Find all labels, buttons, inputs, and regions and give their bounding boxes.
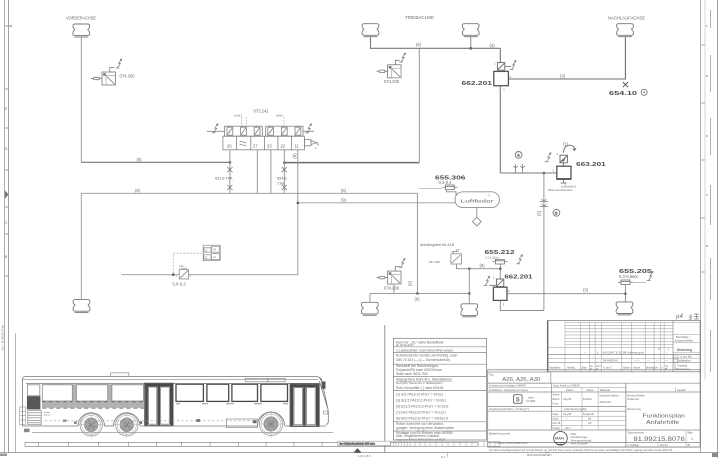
solenoid squares in block <box>227 126 301 136</box>
svg-text:Fert.M.: Fert.M. <box>553 421 561 425</box>
svg-text:074.200: 074.200 <box>384 79 400 84</box>
svg-text:Werk München: Werk München <box>571 442 589 446</box>
svg-text:S: S <box>516 397 520 403</box>
svg-text:TPA: TPA <box>278 182 286 186</box>
underbody small dark parts <box>196 419 200 422</box>
svg-text:/: / <box>666 351 667 355</box>
main title text <box>643 413 685 426</box>
svg-text:ab 02.02.2027: ab 02.02.2027 <box>396 343 414 347</box>
svg-text:NACHLAUFACHSE: NACHLAUFACHSE <box>608 16 645 21</box>
svg-text:3: 3 <box>503 303 505 307</box>
svg-text:Norm: Norm <box>553 417 559 421</box>
svg-text:vorn: vorn <box>179 265 184 268</box>
svg-text:Aug.95: Aug.95 <box>563 412 572 416</box>
svg-text:Bestätig: Bestätig <box>646 367 656 370</box>
mirror <box>322 381 326 388</box>
restrictor ticks on (5) vertical <box>540 199 549 206</box>
svg-text:C: C <box>5 221 8 225</box>
svg-text:Maßstab: Maßstab <box>600 388 611 392</box>
svg-text:04.02047 E 20.09 Aufbess.geb.: 04.02047 E 20.09 Aufbess.geb. <box>603 350 645 354</box>
svg-text:Datum: Datum <box>623 367 630 370</box>
svg-text:(8)16x2 PA11/12-PHLY = St16: (8)16x2 PA11/12-PHLY = St16x1,5 <box>396 416 448 420</box>
wire port3 bottom valve to (5) <box>500 300 544 310</box>
spandrel bottom dashed edge <box>42 407 144 409</box>
pressure switch 074.200 middle bottom <box>377 267 402 285</box>
body bottom edge <box>22 425 78 427</box>
test point X pair port26 <box>227 167 232 190</box>
svg-text:Ventil II: Ventil II <box>234 115 243 118</box>
svg-text:1: 1 <box>557 152 559 156</box>
Luftfeder bubble <box>455 192 499 226</box>
svg-text:MAN-PROPRIETARY: MAN-PROPRIETARY <box>527 453 552 457</box>
underbody luggage box <box>226 419 257 427</box>
svg-text:(6): (6) <box>415 297 421 302</box>
svg-text:~: ~ <box>584 350 586 354</box>
svg-text:0,3-0,4: 0,3-0,4 <box>439 180 453 185</box>
wheel arches <box>78 413 105 426</box>
windshield slope <box>319 381 327 408</box>
wire 655.212 tap <box>499 264 501 269</box>
left fold arrow mark <box>5 190 9 199</box>
svg-text:Anfahrhilfe: Anfahrhilfe <box>646 420 679 426</box>
Typ cell <box>488 372 551 383</box>
solenoid valve 662.201 bottom <box>483 276 507 300</box>
svg-text:d. aus Stk.: d. aus Stk. <box>680 355 693 359</box>
front wheel <box>258 411 285 438</box>
svg-text:04.84534 0: 04.84534 0 <box>603 358 618 362</box>
bellows NACHLAUFACHSE top <box>617 24 634 37</box>
svg-text:1: 1 <box>691 437 693 441</box>
svg-text:26: 26 <box>227 144 232 149</box>
svg-text:C: C <box>706 193 709 197</box>
svg-text:Ad: Ad <box>588 417 592 421</box>
svg-text:22: 22 <box>281 144 286 149</box>
svg-text:Namen/a.Stellen: Namen/a.Stellen <box>600 394 620 398</box>
mm ruler fine ticks <box>390 442 500 447</box>
circled dot near 654.10 <box>641 89 647 95</box>
svg-text:E: E <box>706 74 708 78</box>
svg-text:651.8 TPA: 651.8 TPA <box>215 177 233 181</box>
svg-text:/: / <box>668 347 669 351</box>
bellows TRIEBACHSE right bottom <box>461 304 478 317</box>
svg-text:Gepr: Gepr <box>553 412 559 416</box>
svg-text:(1): (1) <box>563 142 569 147</box>
revision table column lines <box>564 321 566 372</box>
svg-text:(6): (6) <box>341 188 347 193</box>
svg-text:Aug.95: Aug.95 <box>563 397 572 401</box>
svg-text:Fortsetzung Unterlage s.VB4/50: Fortsetzung Unterlage s.VB4/50 <box>489 384 526 388</box>
revision header row <box>549 365 669 371</box>
right windows <box>176 384 288 401</box>
svg-text:3: 3 <box>555 211 558 216</box>
svg-text:F: F <box>706 24 708 28</box>
svg-text:MAN: MAN <box>555 436 564 440</box>
wire left bellows riser bottom <box>369 293 371 302</box>
MAN company text <box>571 432 592 446</box>
svg-text:Ventil I: Ventil I <box>276 115 284 118</box>
valve block 073.241 <box>223 126 305 150</box>
roof second line <box>23 379 318 381</box>
svg-text:D: D <box>5 147 8 151</box>
junction TRIEB <box>470 47 472 49</box>
svg-text:Bl.: Bl. <box>688 443 691 447</box>
revision right block cells <box>673 335 700 370</box>
svg-text:21: 21 <box>213 256 216 259</box>
svg-text:(5): (5) <box>537 210 542 216</box>
ground line <box>32 431 333 433</box>
left border trim line <box>4 0 6 453</box>
wire 662.201 port3 down <box>499 86 501 173</box>
bellows TRIEBACHSE left bottom <box>361 302 378 315</box>
svg-text:C-Auflage: C-Auflage <box>628 443 640 447</box>
valve block 073.241 port drops <box>230 150 298 203</box>
svg-text:Prom: Prom <box>553 402 559 406</box>
svg-text:E: E <box>5 107 8 111</box>
right zone tick marks <box>701 45 705 272</box>
restrictor 0,0-0,3 <box>179 268 188 279</box>
svg-text:3: 3 <box>597 350 599 354</box>
wire (6) down to front bellows <box>80 193 82 299</box>
bottom row <box>628 443 691 447</box>
wire into 662.201 top <box>499 48 501 62</box>
svg-text:Entfallgebot: Entfallgebot <box>677 358 691 362</box>
svg-text:(8): (8) <box>137 157 143 162</box>
svg-text:Datum: Datum <box>566 388 574 392</box>
left windows <box>42 385 143 401</box>
restrictor ticks on mid wire <box>513 164 525 173</box>
pressure switch 074.200 front <box>91 68 116 86</box>
svg-text:µ4: µ4 <box>676 314 683 320</box>
svg-text:AP: AP <box>588 421 592 425</box>
block right feed stub + zigzag <box>303 130 314 132</box>
window band top rail <box>26 383 319 385</box>
wire mid horizontal to 663.201 <box>500 172 557 174</box>
rear engine grille <box>28 410 41 424</box>
dashed link to connector block <box>173 253 203 273</box>
rear upper window <box>28 385 40 396</box>
svg-text:067.300: 067.300 <box>429 260 440 264</box>
svg-text:Festig.: Festig. <box>553 426 561 430</box>
svg-text:(6): (6) <box>416 42 422 47</box>
svg-text:663.201: 663.201 <box>576 162 606 168</box>
svg-text:(3): (3) <box>583 288 589 293</box>
svg-text:Tag/Name: Tag/Name <box>549 367 561 370</box>
personnel rows <box>489 393 646 436</box>
revision table row lines <box>565 321 700 323</box>
svg-text:0,0-0,3: 0,0-0,3 <box>173 282 187 287</box>
wire (8) lower horizontal Anhaltegeber <box>457 264 501 269</box>
circled 4 <box>515 152 522 159</box>
wire 074.200 bottom drop <box>393 284 395 293</box>
svg-text:1.02 4-6.5: 1.02 4-6.5 <box>358 454 371 458</box>
bus roof outline <box>22 376 328 426</box>
left zone letters <box>5 24 13 259</box>
svg-text:(8): (8) <box>480 263 486 268</box>
throttle 655.306 <box>419 185 457 195</box>
connector block 24/23 <box>203 245 220 260</box>
svg-text:Abteilg.: Abteilg. <box>567 367 576 370</box>
svg-text:Beschädig./: Beschädig./ <box>676 335 690 339</box>
wire (6) right riser down <box>416 193 418 293</box>
svg-text:nach: nach <box>528 396 534 400</box>
revision table <box>547 321 700 372</box>
svg-text:0,3-0,6sec: 0,3-0,6sec <box>619 274 639 279</box>
vent curved arrow (1) <box>564 145 575 152</box>
roof hatch rear <box>111 373 129 376</box>
svg-text:Im Originalmaßstab 100 mm: Im Originalmaßstab 100 mm <box>340 442 376 446</box>
scale label box <box>338 441 391 445</box>
left inner border line <box>7 0 9 453</box>
svg-text:2: 2 <box>508 289 510 293</box>
svg-text:27: 27 <box>253 144 258 149</box>
svg-text:A. ab f7.: A. ab f7. <box>603 367 613 370</box>
svg-text:Anhaltegeber für ALB: Anhaltegeber für ALB <box>420 243 455 247</box>
right sill ticks <box>176 403 288 405</box>
rear wheel 2 <box>114 412 140 438</box>
bus area left frame line <box>15 333 17 453</box>
solenoid valve 662.201 top <box>494 61 516 86</box>
svg-text:Angabenvorschriften u. Prüfung: Angabenvorschriften u. Prüfung TL <box>489 407 530 411</box>
wire (6) bottom horizontal <box>370 292 469 294</box>
rear lower step lines <box>24 413 50 433</box>
svg-text:074.200: 074.200 <box>384 286 400 291</box>
bus area right frame line <box>384 325 386 453</box>
svg-text:Gewähr: Gewähr <box>677 388 686 392</box>
svg-text:B: B <box>5 255 8 259</box>
bottom centre fold mark <box>354 448 362 453</box>
handwritten marks top right <box>676 314 693 321</box>
wavy symbol cell2 <box>240 141 247 146</box>
svg-text:VORDERACHSE: VORDERACHSE <box>66 16 96 21</box>
svg-text:Nr.: Nr. <box>656 367 660 370</box>
solenoid valve 663.201 <box>545 145 576 183</box>
svg-text:—: — <box>566 418 569 421</box>
svg-text:662.201: 662.201 <box>505 274 533 280</box>
title block h lines <box>488 382 700 384</box>
svg-text:(7)14x2 PA11/12-PHLY = St 1: (7)14x2 PA11/12-PHLY = St 12x1 <box>396 410 446 414</box>
rear dark window <box>27 397 40 409</box>
throttle 655.212 <box>492 255 522 264</box>
svg-text:B: B <box>706 244 708 248</box>
port numbers of block <box>227 144 300 149</box>
svg-text:Luftfeder: Luftfeder <box>461 199 495 204</box>
svg-text:3: 3 <box>503 88 505 92</box>
left legend boxes <box>20 407 26 424</box>
dashed pilot lines above block <box>241 117 284 126</box>
svg-text:(8): (8) <box>292 153 297 159</box>
junction at mid wire <box>543 172 545 174</box>
wire TRIEBACHSE header <box>371 37 501 48</box>
svg-text:073.241: 073.241 <box>254 109 270 114</box>
wire front axle riser top <box>80 37 82 162</box>
svg-text:(6)12x1,5 PA11/12-PHLY = St 12: (6)12x1,5 PA11/12-PHLY = St 12x1 <box>396 404 449 408</box>
bellows TRIEBACHSE right top <box>462 24 479 37</box>
svg-text:DIN 74 324 (—◎— Sonderzubehör): DIN 74 324 (—◎— Sonderzubehör) <box>396 358 450 362</box>
svg-text:gungen. Verlegung ohne Wassers: gungen. Verlegung ohne Wassersäcke <box>396 426 454 430</box>
junction dots on (8)/(9) <box>229 161 231 163</box>
wire port11 drop <box>122 203 298 275</box>
port digits 662.201 top <box>494 62 512 92</box>
junction dots (6) bottom <box>416 292 418 294</box>
svg-text:*): *) <box>488 194 490 198</box>
svg-text:(3) 8x1,5 PA11/12-PHLY = St 8: (3) 8x1,5 PA11/12-PHLY = St 8x1 <box>396 398 446 402</box>
bottom outer border line <box>0 452 719 454</box>
svg-text:Schriftfeld u. Zeichentext in: Schriftfeld u. Zeichentext in Kursiv <box>489 388 529 392</box>
wire into 662.201 bottom <box>499 269 501 279</box>
svg-text:Ers. f. Bl. 99215.76 Vm: Ers. f. Bl. 99215.76 Vm <box>2 325 5 351</box>
svg-text:1: 1 <box>494 62 496 66</box>
svg-text:1: 1 <box>493 276 495 280</box>
svg-text:2: 2 <box>510 75 512 79</box>
svg-text:(9): (9) <box>341 198 347 203</box>
title block v lines <box>551 383 553 430</box>
port digits 663.201 <box>553 152 567 187</box>
svg-text:Bearb: Bearb <box>553 397 560 401</box>
right border trim line <box>716 0 718 458</box>
svg-text:Rohr-Kennziffer ( ) nach M3164: Rohr-Kennziffer ( ) nach M3164 <box>396 386 444 390</box>
svg-text:MAN-PROPRIETARY: MAN-PROPRIETARY <box>497 441 529 445</box>
svg-text:Ers.für: Ers.für <box>660 443 668 447</box>
junction dots lower <box>499 268 501 270</box>
svg-text:(3): (3) <box>560 74 566 79</box>
svg-text:——: —— <box>634 358 640 362</box>
roof hatches front <box>245 378 268 381</box>
left grey spandrel band <box>42 384 144 408</box>
throttle 655.205 <box>618 272 653 285</box>
wire (9) horizontal <box>298 202 456 204</box>
front door <box>290 384 319 427</box>
svg-text:Typ:: Typ: <box>489 372 494 376</box>
svg-text:662.201: 662.201 <box>462 81 493 87</box>
port digits 662.201 bottom <box>493 276 510 307</box>
wire (5) vertical <box>543 173 545 311</box>
svg-text:—AP—: —AP— <box>563 426 572 430</box>
svg-text:—: — <box>647 358 650 362</box>
svg-text:A: A <box>10 24 13 28</box>
Anhaltegeber 067.300 box <box>451 250 462 264</box>
faint sub-border annotations <box>358 451 549 458</box>
svg-text:o.Lackaushärt. nach phenolfrei: o.Lackaushärt. nach phenolfrei-umger. <box>396 348 454 352</box>
bellows VORDERACHSE bottom <box>73 300 90 313</box>
svg-text:074.200: 074.200 <box>120 74 136 79</box>
svg-text:Blattfeld ausw.stel.:: Blattfeld ausw.stel.: <box>489 432 511 436</box>
circled 3 <box>553 209 560 216</box>
svg-text:CAD-Zeichnung/NC: CAD-Zeichnung/NC <box>564 407 587 411</box>
bellows TRIEBACHSE left top <box>362 24 379 37</box>
svg-text:Name: Name <box>553 393 560 397</box>
title block small texts row1 <box>489 384 686 393</box>
svg-text:655.212: 655.212 <box>485 250 515 256</box>
svg-text:Blatt: Blatt <box>582 367 587 370</box>
left window sill dark ticks <box>42 401 143 403</box>
revision right block texts <box>675 335 694 371</box>
connector block digits <box>205 249 217 260</box>
wire (3) bottom horizontal <box>507 293 625 295</box>
port digits restrictor <box>176 275 192 278</box>
svg-text:D: D <box>706 134 709 138</box>
wire (6) trieb riser <box>468 269 470 304</box>
test point X 654.10 <box>623 82 628 87</box>
svg-text:11: 11 <box>295 144 300 149</box>
svg-text:Austauschteil(e): Austauschteil(e) <box>675 339 694 343</box>
right inner border lines <box>700 0 702 453</box>
svg-text:(6): (6) <box>135 188 141 193</box>
bottom left corner mark <box>0 454 7 457</box>
wire nachlauf bottom riser <box>624 285 626 302</box>
MAN logo <box>554 431 568 445</box>
junction (3) bottom <box>624 293 626 295</box>
title block <box>488 370 700 447</box>
block left feed stub + zigzag <box>207 130 225 132</box>
title block outer <box>488 370 700 447</box>
wire TRIEB right bellows stub <box>470 37 472 48</box>
svg-text:Name: Name <box>587 388 594 392</box>
svg-text:(6): (6) <box>408 280 413 286</box>
S symbol box <box>514 395 536 404</box>
bottom right corner mark <box>712 453 718 457</box>
svg-text:Stahl nach WDZ /St2: Stahl nach WDZ /St2 <box>396 372 428 376</box>
svg-text:0,1-0,15mm: 0,1-0,15mm <box>486 257 499 260</box>
wire (8) right segment heavy <box>284 162 419 164</box>
bellows VORDERACHSE top <box>73 24 90 37</box>
svg-text:e: e <box>662 367 664 370</box>
svg-text:A26, A26, A30: A26, A26, A30 <box>502 377 540 383</box>
svg-text:—: — <box>665 358 668 362</box>
svg-text:Sachnummer: Sachnummer <box>628 431 645 435</box>
svg-text:2: 2 <box>553 169 555 173</box>
axle hardware marks <box>74 421 76 423</box>
headlamp <box>324 411 328 414</box>
left zone tick marks <box>5 26 11 276</box>
zigzag 074.200 front <box>116 59 122 68</box>
svg-text:bezüglich Toleranzen lt. Maßan: bezüglich Toleranzen lt. Maßangaben <box>396 381 443 385</box>
svg-text:654.10: 654.10 <box>609 91 637 97</box>
chassis dashed line <box>45 420 257 422</box>
svg-text:B.glieroth: B.glieroth <box>583 412 595 416</box>
svg-text:81.99215.8076: 81.99215.8076 <box>633 436 685 443</box>
pressure switch 074.200 middle top <box>377 60 402 78</box>
svg-text:(1) 6x1 PA11/12-PHLY = St: (1) 6x1 PA11/12-PHLY = St 6x1 <box>396 392 443 396</box>
vent symbol port3 of block <box>304 140 318 146</box>
svg-text:4: 4 <box>517 153 520 158</box>
ruler strip <box>25 442 478 446</box>
revision table outer <box>547 321 700 372</box>
svg-text:Änderung: Änderung <box>677 348 692 352</box>
rear wheel 1 <box>78 412 104 438</box>
svg-text:Rudrich: Rudrich <box>583 397 592 401</box>
svg-text:Robert-Nr.: Robert-Nr. <box>628 397 640 401</box>
notes block box <box>393 338 486 440</box>
middle door <box>145 383 173 425</box>
svg-text:Benennung: Benennung <box>628 407 642 411</box>
svg-text:Ange.aus BAN/S-M/81026/63 und: Ange.aus BAN/S-M/81026/63 und MQT <box>396 437 445 441</box>
svg-text:blind verschlossen: blind verschlossen <box>548 188 573 192</box>
svg-text:—: — <box>656 358 659 362</box>
svg-text:Benenn/Stellen: Benenn/Stellen <box>628 394 646 398</box>
svg-text:Ablicht-Nr.: Ablicht-Nr. <box>600 400 612 404</box>
svg-text:3: 3 <box>315 146 317 150</box>
bellows NACHLAUFACHSE bottom <box>616 302 633 315</box>
svg-text:§: § <box>688 315 693 321</box>
wire (8) left segment <box>81 161 230 163</box>
zigzag 074.200 middle top <box>399 53 405 62</box>
notes text lines <box>396 340 458 441</box>
svg-text:TRIEBACHSE: TRIEBACHSE <box>405 15 434 20</box>
wire (3) top horizontal <box>509 37 626 79</box>
svg-text:654.8: 654.8 <box>277 177 287 181</box>
svg-text:M 3090: M 3090 <box>527 399 536 403</box>
svg-text:Funktionsplan: Funktionsplan <box>643 413 685 419</box>
